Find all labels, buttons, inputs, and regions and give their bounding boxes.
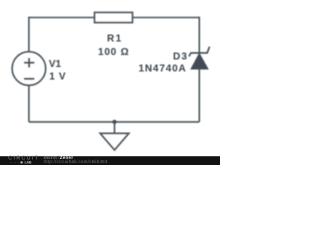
svg-text:D3: D3: [173, 51, 187, 62]
svg-text:1 V: 1 V: [49, 72, 66, 83]
svg-text:LAB: LAB: [25, 159, 32, 164]
svg-text:V1: V1: [49, 59, 62, 70]
svg-text:100 Ω: 100 Ω: [98, 47, 129, 58]
svg-text:–––: –––: [10, 160, 21, 164]
svg-text:http://circuitlab.com/c6kb453: http://circuitlab.com/c6kb453: [44, 159, 108, 164]
svg-text:R1: R1: [107, 34, 122, 45]
svg-text:1N4740A: 1N4740A: [139, 64, 186, 75]
